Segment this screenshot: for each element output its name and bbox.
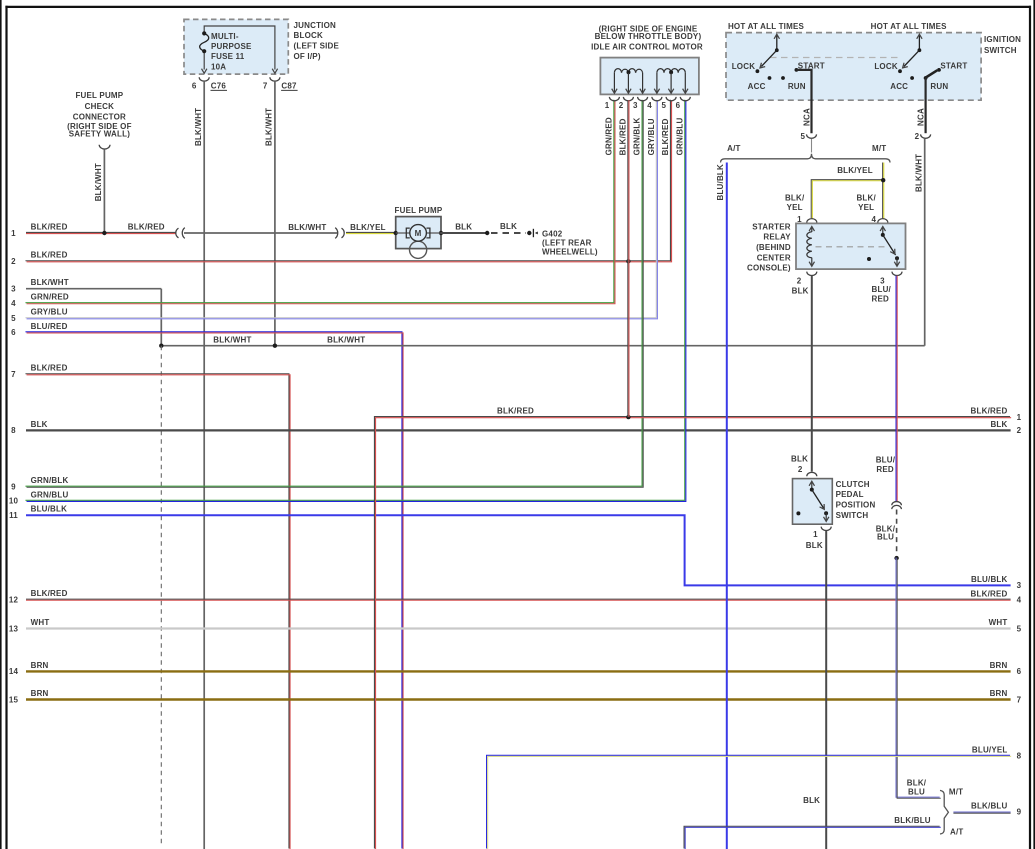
svg-text:BLK/RED: BLK/RED [31,222,68,231]
svg-text:BLK/WHT: BLK/WHT [31,278,69,287]
dashed vertical below junction [160,346,162,845]
wire BLK from relay pin2 to clutch switch [811,276,813,472]
svg-text:SWITCH: SWITCH [984,46,1017,55]
svg-text:RUN: RUN [930,82,948,91]
svg-text:1: 1 [11,229,16,238]
svg-text:M/T: M/T [949,788,963,797]
page border outer-left line [0,0,2,849]
starter relay box [796,223,906,269]
svg-text:BELOW THROTTLE BODY): BELOW THROTTLE BODY) [595,32,702,41]
svg-text:GRY/BLU: GRY/BLU [647,118,656,155]
IACM pin 3 internal lead with arrow [642,73,644,93]
svg-text:BLU/RED: BLU/RED [31,322,68,331]
junction IACM pin2 wire x BLK/RED right-1 [626,415,630,419]
svg-text:NCA: NCA [803,108,812,126]
fuel pump box [396,217,441,249]
fuel pump motor M circle [396,232,441,234]
svg-text:YEL: YEL [787,203,803,212]
svg-text:BLK/: BLK/ [856,193,876,202]
svg-text:MULTI-: MULTI- [211,32,239,41]
svg-text:BRN: BRN [990,661,1008,670]
svg-text:BLK/WHT: BLK/WHT [288,223,326,232]
svg-text:IGNITION: IGNITION [984,35,1021,44]
junction wire1 x check connector [102,231,106,235]
IACM coil1 center dot [627,70,631,74]
svg-text:GRN/RED: GRN/RED [31,293,69,302]
relay pin1 connector [807,219,817,223]
svg-text:CONSOLE): CONSOLE) [747,264,791,273]
svg-text:OF I/P): OF I/P) [294,52,321,61]
wire C76 BLK/WHT vertical to page bottom [203,82,205,849]
svg-text:9: 9 [1017,808,1022,817]
svg-text:5: 5 [661,101,666,110]
svg-text:BLK/RED: BLK/RED [31,589,68,598]
clutch pin1 connector [821,527,831,531]
page border top [5,6,1031,8]
wire BLK/BLU A/T branch from page bottom to brace [684,826,941,849]
connector C87 [270,77,280,81]
svg-text:1: 1 [1017,413,1022,422]
svg-text:BLU: BLU [908,788,925,797]
svg-text:CHECK: CHECK [85,102,114,111]
svg-text:1: 1 [605,101,610,110]
IACM pin 1 internal lead with arrow [613,73,615,93]
svg-text:BLK: BLK [500,222,517,231]
svg-text:BLK/WHT: BLK/WHT [194,108,203,146]
svg-text:PURPOSE: PURPOSE [211,42,252,51]
svg-text:10A: 10A [211,62,226,71]
svg-text:4: 4 [1017,596,1022,605]
wire 15 BRN full width [26,698,1011,700]
wire 7 BLK/RED turns down to page bottom [25,374,290,849]
dashed BLK/BLU segment [896,510,898,556]
internal dashed divider [770,57,899,59]
wire 9 GRN/BLK to IACM pin3 [25,100,643,488]
connector 2 [921,134,931,138]
svg-text:IDLE AIR CONTROL MOTOR: IDLE AIR CONTROL MOTOR [591,42,703,51]
svg-text:7: 7 [11,370,16,379]
wire 1 BLK/WHT middle segment [184,232,337,234]
wire 6 BLU/RED turns down to page bottom [25,332,403,849]
svg-text:15: 15 [9,695,19,704]
merge brace [940,790,948,834]
svg-text:BRN: BRN [31,661,49,670]
svg-text:C87: C87 [281,81,297,90]
IACM pin 2 wire BLK/RED down to junctions [628,100,629,417]
svg-text:SWITCH: SWITCH [836,511,869,520]
IACM coil 1 [614,69,642,73]
fuel pump right terminal dot [439,231,443,235]
svg-text:RUN: RUN [788,82,806,91]
junction dot dashed to solid [894,556,898,560]
svg-text:5: 5 [1017,624,1022,633]
wire BLK/YEL M/T drop [883,163,884,181]
svg-text:M/T: M/T [872,144,886,153]
svg-text:FUEL PUMP: FUEL PUMP [395,206,443,215]
svg-text:WHEELWELL): WHEELWELL) [542,248,598,257]
clutch pedal position switch box [793,479,833,525]
svg-text:2: 2 [797,276,802,285]
svg-text:BLK: BLK [791,455,808,464]
relay pin2 connector [807,272,817,276]
svg-text:POSITION: POSITION [836,501,876,510]
svg-text:GRY/BLU: GRY/BLU [31,308,68,317]
wire BLK/YEL to relay pin4 [883,180,884,218]
svg-text:BLK: BLK [792,287,809,296]
IACM pin 2 connector [623,97,633,101]
svg-text:LOCK: LOCK [732,62,755,71]
svg-text:ACC: ACC [890,82,908,91]
sw1 START wire to connector 5 [796,70,811,133]
dashed BLK wire to G402 [491,232,526,234]
svg-text:10: 10 [9,497,19,506]
clutch switch pivot dot [810,488,814,492]
svg-text:BRN: BRN [990,689,1008,698]
connector 5 [807,134,817,138]
wire 1 BLK/RED left segment [26,232,176,233]
ground G402 symbol [532,229,534,237]
svg-text:5: 5 [801,132,806,141]
wire BLU/BLK A/T vertical to page bottom [726,163,728,849]
wire BLU/RED from relay pin3 [896,276,897,501]
svg-text:SAFETY WALL): SAFETY WALL) [69,129,130,138]
relay switch lower contact dot [895,256,899,260]
svg-text:5: 5 [11,314,16,323]
junction dot on BLK wire [485,231,489,235]
ignition switch section 1 [732,34,825,91]
svg-text:BLK/RED: BLK/RED [971,407,1008,416]
svg-text:LOCK: LOCK [874,62,897,71]
svg-text:C76: C76 [211,81,227,90]
svg-text:BLK/RED: BLK/RED [618,118,627,155]
relay internal dashed link [816,246,887,248]
svg-text:1: 1 [813,530,818,539]
svg-text:GRN/BLK: GRN/BLK [31,476,69,485]
svg-text:9: 9 [11,483,16,492]
wire BLK/BLU to right edge 9 [953,812,1010,813]
svg-text:BLK/RED: BLK/RED [971,589,1008,598]
svg-text:BLK/BLU: BLK/BLU [894,816,931,825]
idle air control motor box [600,58,699,95]
svg-text:3: 3 [1017,581,1022,590]
svg-text:A/T: A/T [727,144,741,153]
svg-text:FUEL PUMP: FUEL PUMP [75,91,123,100]
svg-text:3: 3 [11,285,16,294]
junction block dashed box [184,19,288,74]
sw2 RUN wire to connector 2 [924,78,926,134]
svg-text:(BEHIND: (BEHIND [756,243,791,252]
wire 12 BLK/RED full width [26,599,1011,600]
svg-text:BLK: BLK [803,796,820,805]
svg-text:GRN/RED: GRN/RED [604,117,613,155]
junction wire3 x BLK/WHT horizontal [159,344,163,348]
page border right [1029,6,1031,849]
IACM pin 2 internal lead with arrow [627,73,629,93]
wire 5 GRY/BLU to IACM pin4 [25,100,657,319]
svg-text:BLU/BLK: BLU/BLK [971,575,1008,584]
clutch unused contact dot [796,511,800,515]
svg-text:BLK/YEL: BLK/YEL [350,223,386,232]
svg-text:BLU/BLK: BLU/BLK [31,505,68,514]
svg-text:NCA: NCA [917,108,926,126]
wire BLK/WHT horizontal junction line [161,345,924,347]
svg-text:2: 2 [11,257,16,266]
relay unused contact dot [867,257,871,261]
wire 8 BLK full width [26,429,1011,431]
svg-text:GRN/BLU: GRN/BLU [31,490,69,499]
IACM pin 3 connector [638,97,648,101]
fuse top terminal dot [202,31,206,35]
inline connector )) on wire 1 [342,228,345,238]
junction C87 wire x BLK/WHT horizontal [273,344,277,348]
fuel pump left terminal dot [394,231,398,235]
svg-text:BLK/WHT: BLK/WHT [265,108,274,146]
arrow into C76 [202,69,207,74]
svg-text:BLK: BLK [990,420,1007,429]
wire BLK/YEL branch to relay pin1 [811,180,884,219]
IACM pin 4 internal lead with arrow [656,73,658,93]
svg-text:BLK/WHT: BLK/WHT [327,335,365,344]
relay coil [811,228,813,233]
G402 ground dot [527,231,531,235]
relay switch top contact dot [881,233,885,237]
ignition switch section 2 [874,34,967,91]
svg-text:2: 2 [798,465,803,474]
svg-text:2: 2 [619,101,624,110]
svg-text:BLK/WHT: BLK/WHT [213,335,251,344]
relay pin3 connector [892,272,902,276]
svg-text:BLU/: BLU/ [876,455,896,464]
svg-text:RED: RED [872,295,890,304]
thin link below connector 5 [811,139,813,153]
svg-text:BRN: BRN [31,689,49,698]
connector C76 [199,77,209,81]
wire 2 BLK/RED [25,100,671,262]
relay blade arrowhead [890,249,897,256]
IACM pin 5 connector [666,97,676,101]
svg-text:3: 3 [633,101,638,110]
svg-text:(LEFT REAR: (LEFT REAR [542,238,592,247]
svg-text:A/T: A/T [950,828,964,837]
IACM coil2 center dot [669,70,673,74]
fuse bottom terminal dot [202,49,206,53]
svg-text:G402: G402 [542,230,563,239]
svg-text:RELAY: RELAY [763,233,791,242]
svg-text:8: 8 [1017,752,1022,761]
junction BLK/YEL split [881,178,885,182]
wire 3 BLK/WHT [26,288,161,290]
svg-text:13: 13 [9,624,19,633]
svg-text:BLK/YEL: BLK/YEL [837,166,873,175]
svg-text:CONNECTOR: CONNECTOR [73,112,126,121]
IACM pin 6 connector [680,97,690,101]
wire 11 BLU/BLK jog to right edge [26,515,1011,585]
svg-text:BLK: BLK [806,541,823,550]
IACM pin 4 connector [652,97,662,101]
svg-text:WHT: WHT [31,618,50,627]
svg-text:CLUTCH: CLUTCH [836,480,870,489]
IACM pin 5 internal lead with arrow [670,73,672,93]
svg-text:FUSE 11: FUSE 11 [211,52,245,61]
A/T M/T distribution brace [721,154,891,163]
svg-text:7: 7 [263,81,268,90]
junction block internal wire from fuse to C76/C87 [204,26,275,70]
svg-text:GRN/BLU: GRN/BLU [675,118,684,156]
check connector symbol [99,145,110,149]
svg-text:BLK/: BLK/ [785,193,805,202]
svg-text:WHT: WHT [989,618,1008,627]
svg-text:BLK/RED: BLK/RED [497,407,534,416]
wire 4 GRN/RED to IACM pin1 [25,100,615,304]
wire BLK/RED right-1: vertical from bottom then right to edge [374,417,1011,849]
wire 10 GRN/BLU to IACM pin6 [25,100,685,502]
svg-text:6: 6 [676,101,681,110]
svg-text:CENTER: CENTER [757,253,791,262]
svg-text:7: 7 [1017,695,1022,704]
IACM pin 6 internal lead with arrow [684,73,686,93]
svg-text:2: 2 [1017,426,1022,435]
svg-text:12: 12 [9,596,19,605]
ignition switch dashed box [726,33,981,101]
svg-text:BLK/RED: BLK/RED [31,251,68,260]
IACM pin 1 connector [609,97,619,101]
fuel pump lower circle [410,241,427,258]
multi-purpose fuse 11 symbol [200,33,209,51]
svg-text:BLK/WHT: BLK/WHT [94,163,103,201]
clutch lower contact dot [824,511,828,515]
svg-text:BLU: BLU [877,533,894,542]
arrow into C87 [272,69,277,74]
svg-text:(LEFT SIDE: (LEFT SIDE [294,42,340,51]
page border main frame left [5,6,7,849]
svg-text:BLK/RED: BLK/RED [31,364,68,373]
page border outer-right line [1033,0,1035,849]
svg-text:11: 11 [9,511,18,520]
svg-text:GRN/BLK: GRN/BLK [633,118,642,156]
motor brush brackets [406,228,410,238]
relay pin4 connector [878,219,888,223]
svg-text:4: 4 [647,101,652,110]
svg-text:START: START [940,62,967,71]
svg-text:YEL: YEL [858,203,874,212]
wire BLK from fuel pump [441,232,487,234]
wire BLK from clutch pin1 to page bottom [825,531,827,849]
svg-text:6: 6 [192,81,197,90]
svg-text:BLK/: BLK/ [907,778,927,787]
svg-text:BLK: BLK [455,223,472,232]
svg-text:6: 6 [11,328,16,337]
svg-text:BLU/BLK: BLU/BLK [716,164,725,201]
sw2 START-RUN blade [926,70,938,77]
svg-text:RED: RED [876,465,894,474]
wire 13 WHT full width [26,627,1011,629]
wire BLK/WHT from connector 2 down to horizontal junction line [924,139,926,346]
svg-text:6: 6 [1017,667,1022,676]
svg-text:BLK/RED: BLK/RED [128,222,165,231]
svg-text:M: M [415,229,422,238]
relay switch [882,228,884,235]
svg-text:8: 8 [11,426,16,435]
svg-text:ACC: ACC [748,82,766,91]
clutch pin2 connector [807,472,817,476]
svg-text:14: 14 [9,667,19,676]
junction wire2 x IACM pin2 wire [626,259,630,263]
svg-text:4: 4 [11,299,16,308]
svg-text:BLU/: BLU/ [872,285,892,294]
svg-text:BLK/BLU: BLK/BLU [971,802,1008,811]
svg-text:BLU/YEL: BLU/YEL [972,746,1008,755]
svg-text:BLOCK: BLOCK [294,31,323,40]
svg-text:STARTER: STARTER [752,222,791,231]
wire BLK/WHT check connector drop [103,149,105,233]
wire BLK/BLU M/T branch down and right to brace [896,558,941,799]
wire 14 BRN full width [26,670,1011,672]
IACM coil 2 [657,69,685,73]
inline connector (( on wire 1 [176,228,179,238]
wire BLU/YEL from page bottom to right edge 8 [487,755,1012,849]
svg-text:HOT AT ALL TIMES: HOT AT ALL TIMES [728,22,805,31]
svg-text:HOT AT ALL TIMES: HOT AT ALL TIMES [871,22,948,31]
wire C87 BLK/WHT vertical to junction at y=345.7 [274,82,276,346]
inline connector double arcs [892,502,902,506]
svg-text:BLK/RED: BLK/RED [661,118,670,155]
clutch blade arrowhead [820,504,827,511]
svg-text:JUNCTION: JUNCTION [294,21,337,30]
svg-text:PEDAL: PEDAL [836,490,864,499]
svg-text:BLK/WHT: BLK/WHT [914,154,923,192]
svg-text:2: 2 [915,132,920,141]
svg-text:BLK: BLK [31,420,48,429]
wire 1 BLK/YEL segment to fuel pump [346,232,395,233]
